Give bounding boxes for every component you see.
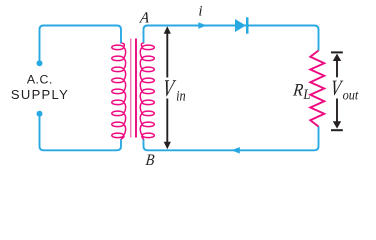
wire: A.C. supply bottom lead to transformer primary bottom — [40, 116, 122, 151]
wire: secondary top from node A to diode and load (top rail) — [144, 26, 319, 51]
transformer core line right — [135, 39, 137, 138]
svg-text:B: B — [145, 152, 155, 169]
Vout marker top tick bar — [331, 51, 343, 53]
svg-text:A.C.: A.C. — [27, 73, 53, 87]
svg-text:V: V — [161, 75, 177, 102]
diode D (anode left, cathode bar right) — [235, 17, 249, 33]
node: A.C. supply top terminal dot — [37, 60, 43, 66]
Vout bottom tick bar — [331, 129, 343, 131]
Vout upper arrow (pointing up) — [333, 54, 341, 78]
wire: secondary bottom return rail from load to node B — [144, 126, 319, 150]
transformer T1 secondary winding — [140, 43, 154, 140]
transformer T1 primary winding — [112, 43, 126, 140]
svg-text:L: L — [302, 87, 310, 103]
svg-text:in: in — [176, 88, 186, 104]
Vout lower arrow (pointing down) — [333, 99, 341, 129]
svg-text:out: out — [343, 87, 359, 103]
node: A.C. supply bottom terminal dot — [37, 111, 43, 117]
current arrow i on top rail — [198, 22, 207, 29]
svg-text:SUPPLY: SUPPLY — [11, 87, 69, 102]
resistor RL zigzag — [310, 51, 324, 127]
svg-text:i: i — [198, 4, 202, 20]
svg-text:A: A — [138, 9, 151, 26]
wire: A.C. supply top lead to transformer primary top — [40, 26, 122, 62]
Vin measurement arrow lower (pointing down to node B) — [164, 99, 171, 150]
transformer core line left — [130, 39, 132, 138]
Vin measurement arrow upper (pointing up to node A) — [164, 26, 171, 77]
return-current arrow on bottom rail — [231, 147, 240, 154]
